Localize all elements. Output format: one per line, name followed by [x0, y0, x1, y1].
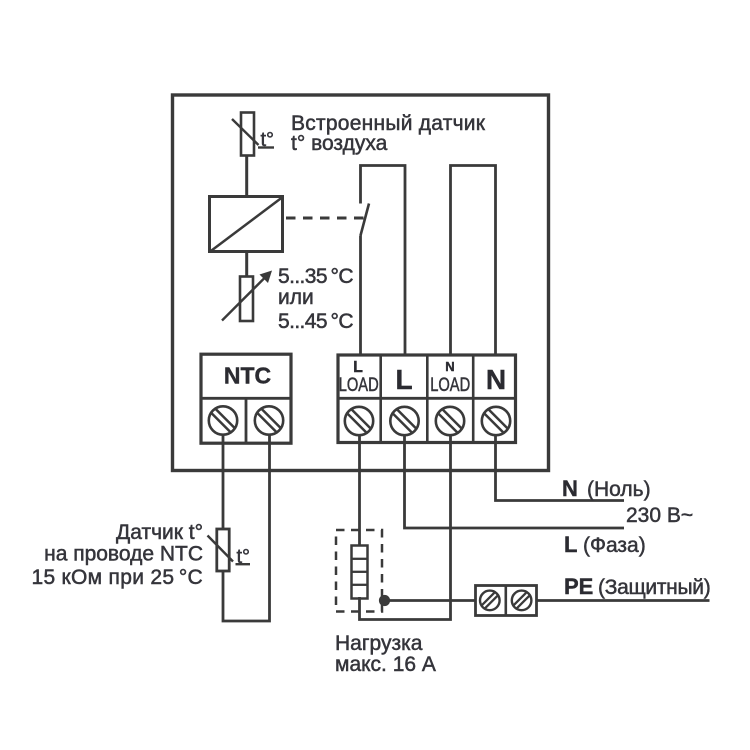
svg-text:t°: t°: [237, 546, 251, 568]
svg-text:NTC: NTC: [224, 363, 271, 389]
svg-text:(Ноль): (Ноль): [587, 478, 651, 501]
svg-text:N: N: [486, 364, 506, 395]
svg-text:на проводе NTC: на проводе NTC: [44, 543, 203, 566]
svg-text:230 В~: 230 В~: [626, 504, 693, 527]
svg-text:t° воздуха: t° воздуха: [291, 132, 388, 155]
svg-text:15 кОм при 25 °C: 15 кОм при 25 °C: [31, 566, 203, 589]
svg-text:LOAD: LOAD: [430, 375, 470, 396]
svg-text:Нагрузка: Нагрузка: [335, 632, 423, 655]
svg-text:N: N: [562, 476, 578, 501]
svg-text:макс. 16 А: макс. 16 А: [335, 653, 436, 676]
svg-text:(Фаза): (Фаза): [583, 534, 646, 557]
svg-text:L: L: [564, 532, 577, 557]
svg-text:(Защитный): (Защитный): [598, 576, 710, 599]
svg-text:или: или: [278, 286, 314, 309]
svg-text:L: L: [353, 359, 363, 376]
svg-text:5...45 °C: 5...45 °C: [278, 310, 353, 333]
svg-text:N: N: [445, 359, 454, 374]
svg-text:5...35 °C: 5...35 °C: [278, 265, 353, 288]
svg-text:L: L: [395, 364, 412, 395]
svg-text:PE: PE: [564, 574, 593, 599]
svg-text:t°: t°: [261, 129, 275, 151]
svg-text:LOAD: LOAD: [339, 375, 379, 396]
svg-text:Датчик t°: Датчик t°: [116, 521, 203, 544]
